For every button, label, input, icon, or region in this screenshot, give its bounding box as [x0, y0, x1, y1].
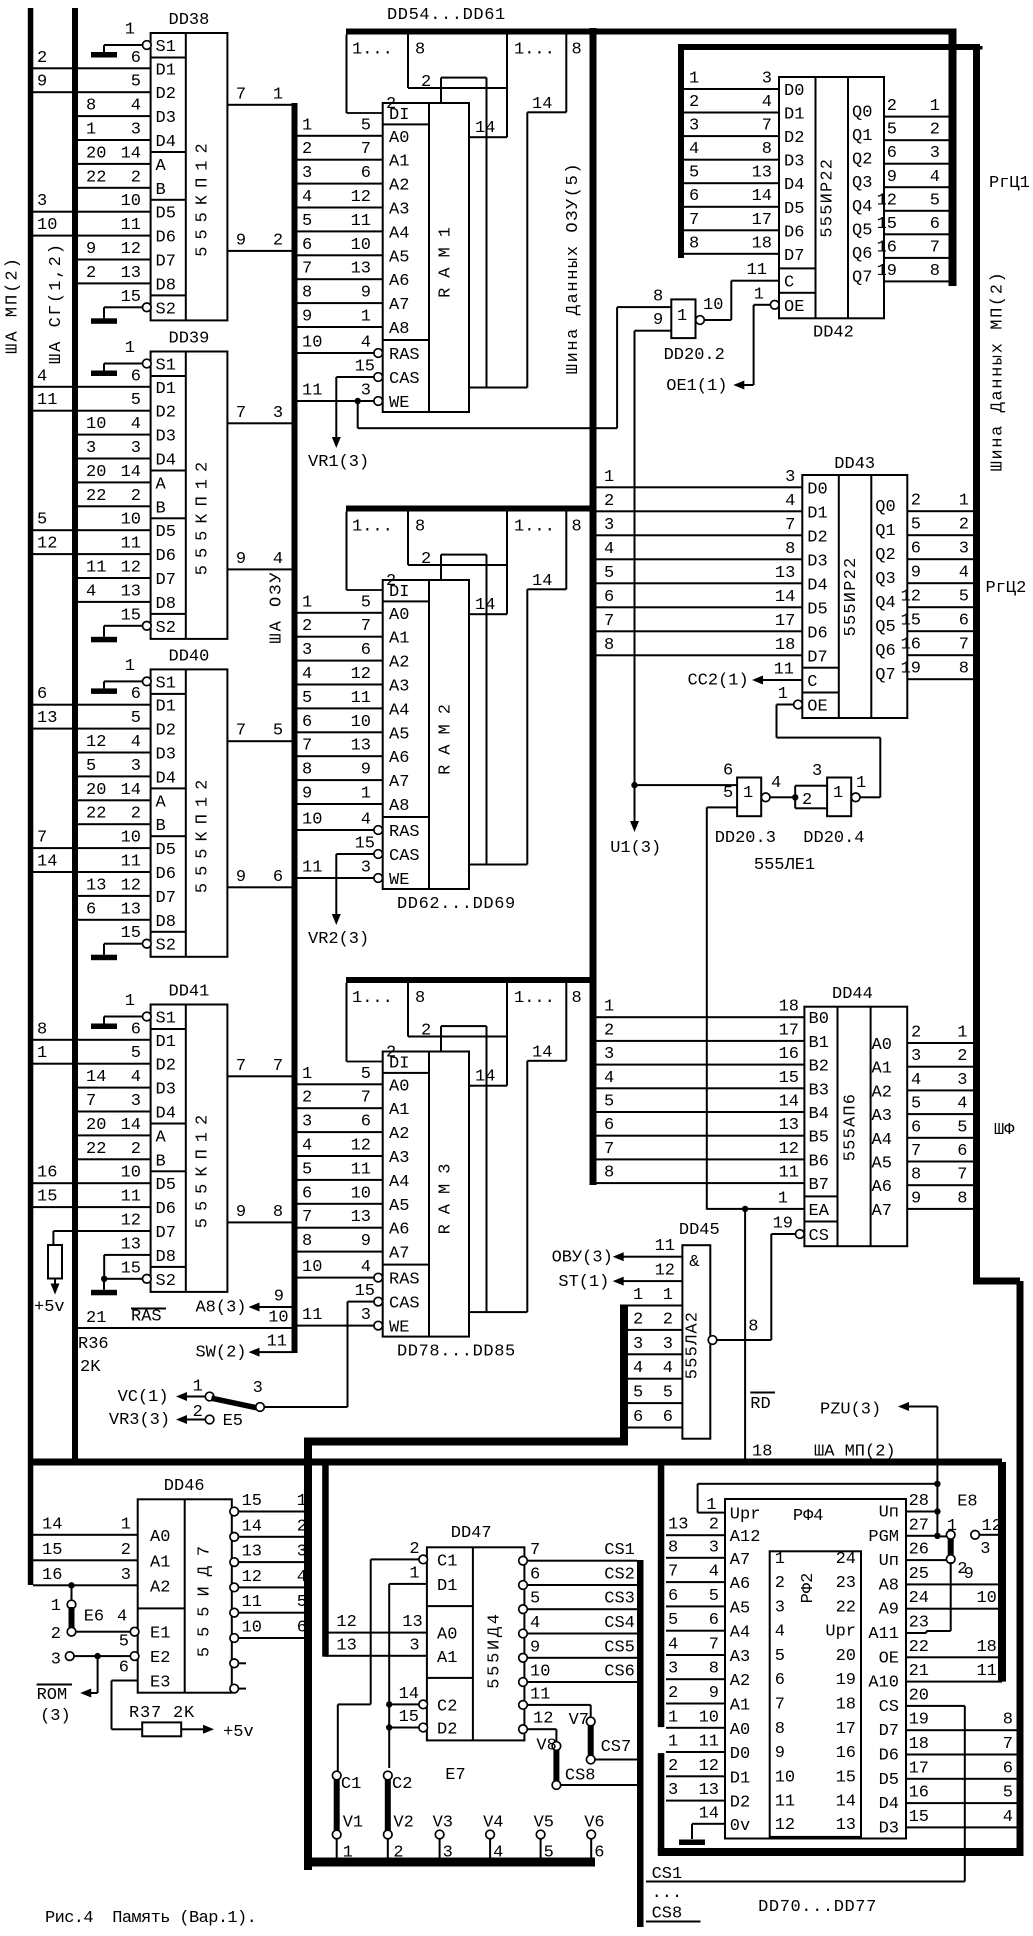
svg-text:A: A — [156, 1128, 167, 1147]
svg-text:6: 6 — [709, 1611, 719, 1630]
РФ4 pin24 wire — [906, 1608, 1002, 1610]
svg-text:2: 2 — [930, 121, 940, 140]
svg-text:20: 20 — [909, 1686, 929, 1705]
svg-text:1: 1 — [361, 308, 371, 327]
svg-text:8: 8 — [785, 540, 795, 559]
svg-text:RAM1: RAM1 — [437, 217, 456, 298]
svg-text:3: 3 — [361, 1306, 371, 1325]
svg-text:4: 4 — [131, 733, 141, 752]
svg-text:A: A — [156, 475, 167, 494]
svg-text:V6: V6 — [584, 1814, 604, 1833]
DD41 D8 to S2 ground wire — [104, 1254, 150, 1256]
svg-text:A12: A12 — [730, 1528, 761, 1547]
svg-text:A: A — [156, 157, 167, 176]
output wire 7/7 — [227, 1075, 291, 1077]
svg-text:3: 3 — [689, 117, 699, 136]
svg-text:12: 12 — [775, 1816, 795, 1835]
svg-text:3: 3 — [409, 1636, 419, 1655]
svg-text:2: 2 — [887, 97, 897, 116]
svg-text:2: 2 — [131, 1140, 141, 1159]
RAM3 RAS wire — [298, 1277, 379, 1279]
svg-text:D5: D5 — [156, 205, 176, 224]
output wire 9/4 — [227, 568, 291, 570]
svg-text:5: 5 — [302, 1160, 312, 1179]
DD40 S1 ground — [143, 677, 152, 686]
svg-text:6: 6 — [723, 762, 733, 781]
svg-text:17: 17 — [779, 1021, 799, 1040]
bus Шина Данных МП(2) lower vertical — [1017, 1281, 1024, 1852]
ROM section inner right bar — [998, 1462, 1006, 1682]
РФ4 pin26 wire — [906, 1559, 946, 1561]
svg-text:3: 3 — [443, 1844, 453, 1863]
svg-text:6: 6 — [297, 1619, 307, 1638]
resistor R36 2K wire from DD41 D7 — [53, 1230, 150, 1232]
svg-text:A0: A0 — [437, 1626, 457, 1645]
svg-text:5: 5 — [911, 1095, 921, 1114]
svg-text:7: 7 — [689, 211, 699, 230]
svg-text:1: 1 — [633, 1286, 643, 1305]
svg-text:18: 18 — [779, 998, 799, 1017]
svg-text:OE: OE — [879, 1649, 899, 1668]
output wire 9/8 — [227, 1221, 291, 1223]
svg-text:D4: D4 — [156, 769, 176, 788]
svg-text:CS5: CS5 — [604, 1638, 635, 1657]
svg-text:5: 5 — [131, 73, 141, 92]
svg-text:8: 8 — [273, 1203, 283, 1222]
svg-text:8: 8 — [930, 262, 940, 281]
svg-text:5: 5 — [887, 121, 897, 140]
svg-text:CS: CS — [809, 1227, 829, 1246]
DD40 S2 ground — [143, 939, 152, 948]
svg-text:1: 1 — [689, 70, 699, 89]
svg-text:D2: D2 — [784, 129, 804, 148]
svg-text:4: 4 — [709, 1563, 719, 1582]
output wire 7/1 — [227, 104, 291, 106]
svg-text:21: 21 — [86, 1309, 106, 1328]
svg-text:3: 3 — [37, 192, 47, 211]
svg-text:2: 2 — [633, 1310, 643, 1329]
svg-text:0v: 0v — [730, 1817, 750, 1836]
RAM3 address ladder wires — [298, 1083, 383, 1085]
svg-text:2: 2 — [121, 1541, 131, 1560]
svg-text:9: 9 — [274, 1288, 284, 1307]
svg-text:1: 1 — [604, 998, 614, 1017]
DD41 S2 ground — [143, 1275, 152, 1284]
svg-text:5: 5 — [302, 212, 312, 231]
svg-text:DD42: DD42 — [813, 323, 854, 342]
svg-text:3: 3 — [51, 1651, 61, 1670]
svg-text:4: 4 — [771, 774, 781, 793]
svg-text:A6: A6 — [389, 1221, 409, 1240]
svg-text:18: 18 — [909, 1735, 929, 1754]
svg-text:16: 16 — [779, 1045, 799, 1064]
svg-text:D0: D0 — [807, 480, 827, 499]
svg-text:7: 7 — [604, 612, 614, 631]
svg-text:14: 14 — [86, 1068, 106, 1087]
svg-text:5: 5 — [604, 564, 614, 583]
ROM section box left bar upper — [658, 1462, 665, 1727]
svg-text:12: 12 — [533, 1710, 553, 1729]
svg-text:Q0: Q0 — [852, 104, 872, 123]
svg-text:1: 1 — [125, 21, 135, 40]
svg-text:10: 10 — [775, 1768, 795, 1787]
svg-text:11: 11 — [37, 391, 57, 410]
svg-text:A9: A9 — [879, 1601, 899, 1620]
svg-text:2: 2 — [709, 1516, 719, 1535]
svg-text:A8(3): A8(3) — [195, 1299, 246, 1318]
svg-text:11: 11 — [655, 1237, 675, 1256]
svg-text:12: 12 — [86, 733, 106, 752]
svg-text:555ЛА2: 555ЛА2 — [683, 1311, 702, 1379]
svg-text:D5: D5 — [156, 1176, 176, 1195]
svg-text:8: 8 — [911, 1166, 921, 1185]
svg-text:4: 4 — [131, 1068, 141, 1087]
svg-text:12: 12 — [121, 240, 141, 259]
register DD43 555ИР22 box — [802, 475, 907, 718]
svg-text:DD46: DD46 — [164, 1477, 205, 1496]
svg-text:DD44: DD44 — [832, 985, 873, 1004]
svg-text:D5: D5 — [156, 841, 176, 860]
bus DD42 register bar — [949, 29, 957, 287]
DD43 OE net to DD20.4 — [776, 705, 778, 738]
DD47 output 11 to V7 — [519, 1701, 528, 1710]
svg-text:A4: A4 — [389, 1173, 409, 1192]
svg-text:11: 11 — [699, 1733, 719, 1752]
svg-text:12: 12 — [37, 535, 57, 554]
svg-text:3: 3 — [302, 164, 312, 183]
svg-text:A4: A4 — [389, 224, 409, 243]
svg-text:OE: OE — [784, 298, 804, 317]
svg-text:A6: A6 — [389, 749, 409, 768]
svg-text:3: 3 — [131, 121, 141, 140]
svg-text:CS1: CS1 — [604, 1541, 635, 1560]
DD20.4 output pin1 — [851, 793, 860, 802]
bus Шина Данных МП(2) vertical — [973, 44, 980, 1281]
svg-text:OE1(1): OE1(1) — [666, 377, 727, 396]
svg-text:6: 6 — [604, 588, 614, 607]
net A8(3) wire — [257, 1306, 292, 1308]
svg-text:A7: A7 — [389, 773, 409, 792]
svg-text:11: 11 — [302, 382, 322, 401]
svg-text:ША МП(2): ША МП(2) — [814, 1443, 896, 1462]
svg-text:РФ2: РФ2 — [799, 1573, 818, 1604]
svg-text:15: 15 — [355, 1282, 375, 1301]
svg-text:13: 13 — [37, 709, 57, 728]
svg-text:15: 15 — [877, 215, 897, 234]
svg-text:D2: D2 — [807, 528, 827, 547]
svg-text:1: 1 — [273, 85, 283, 104]
E8 pin12 wire — [971, 1531, 980, 1540]
svg-text:10: 10 — [242, 1619, 262, 1638]
svg-text:14: 14 — [37, 853, 57, 872]
svg-text:PGM: PGM — [868, 1528, 899, 1547]
svg-text:13: 13 — [668, 1516, 688, 1535]
svg-text:Q5: Q5 — [852, 221, 872, 240]
svg-text:D3: D3 — [156, 109, 176, 128]
svg-text:9: 9 — [361, 284, 371, 303]
svg-text:5: 5 — [361, 1065, 371, 1084]
svg-text:8: 8 — [1003, 1711, 1013, 1730]
svg-text:Q1: Q1 — [875, 522, 895, 541]
svg-text:2: 2 — [775, 1574, 785, 1593]
РФ4 pin21 A10 wire — [906, 1681, 1002, 1683]
svg-text:6: 6 — [911, 1118, 921, 1137]
svg-text:U1(3): U1(3) — [610, 839, 661, 858]
RAM2 address ladder wires — [298, 612, 383, 614]
svg-text:8: 8 — [415, 989, 425, 1008]
svg-text:Рис.4 Память (Вар.1).: Рис.4 Память (Вар.1). — [45, 1909, 256, 1928]
svg-text:D0: D0 — [784, 82, 804, 101]
svg-text:3: 3 — [604, 1045, 614, 1064]
svg-text:15: 15 — [901, 612, 921, 631]
svg-text:Q7: Q7 — [875, 666, 895, 685]
svg-text:15: 15 — [399, 1708, 419, 1727]
svg-text:24: 24 — [836, 1550, 856, 1569]
svg-text:18: 18 — [752, 234, 772, 253]
svg-text:2: 2 — [421, 73, 431, 92]
svg-text:16: 16 — [836, 1744, 856, 1763]
svg-text:A2: A2 — [389, 177, 409, 196]
DD41 input wires and pin numbers — [33, 1039, 151, 1041]
svg-text:17: 17 — [836, 1720, 856, 1739]
svg-text:15: 15 — [909, 1808, 929, 1827]
svg-text:1...: 1... — [352, 989, 393, 1008]
svg-text:A2: A2 — [389, 654, 409, 673]
svg-text:DD45: DD45 — [679, 1221, 720, 1240]
svg-text:A10: A10 — [868, 1674, 899, 1693]
svg-text:5: 5 — [361, 593, 371, 612]
svg-text:555КП12: 555КП12 — [194, 136, 213, 256]
mux DD40 555КП12 box — [151, 669, 228, 956]
svg-text:12: 12 — [351, 665, 371, 684]
svg-text:9: 9 — [361, 1232, 371, 1251]
svg-text:DD54...DD61: DD54...DD61 — [387, 6, 506, 25]
svg-text:CS2: CS2 — [604, 1566, 635, 1585]
svg-text:8: 8 — [668, 1538, 678, 1557]
svg-text:2: 2 — [689, 93, 699, 112]
svg-text:D4: D4 — [807, 576, 827, 595]
svg-text:6: 6 — [361, 1113, 371, 1132]
svg-text:5: 5 — [709, 1587, 719, 1606]
svg-text:1: 1 — [957, 1024, 967, 1043]
svg-text:11: 11 — [775, 1793, 795, 1812]
svg-text:14: 14 — [121, 781, 141, 800]
svg-text:4: 4 — [361, 334, 371, 353]
svg-text:8: 8 — [762, 140, 772, 159]
svg-text:CS3: CS3 — [604, 1590, 635, 1609]
svg-text:DD39: DD39 — [169, 330, 210, 349]
jumper E5 — [205, 1392, 214, 1401]
svg-text:7: 7 — [236, 404, 246, 423]
svg-text:14: 14 — [532, 572, 552, 591]
svg-text:11: 11 — [242, 1593, 262, 1612]
svg-text:B2: B2 — [809, 1058, 829, 1077]
jumpers V3 V4 V5 V6 — [435, 1830, 444, 1839]
nand DD45 555ЛА2 box — [682, 1245, 710, 1439]
svg-text:6: 6 — [668, 1587, 678, 1606]
svg-text:12: 12 — [336, 1613, 356, 1632]
svg-text:DD62...DD69: DD62...DD69 — [397, 895, 516, 914]
svg-text:4: 4 — [604, 540, 614, 559]
svg-text:D2: D2 — [156, 85, 176, 104]
DD46 E1 pin4 — [130, 1627, 139, 1636]
bus Шина Данных МП(2) jog right — [973, 1278, 1020, 1285]
svg-text:10: 10 — [302, 811, 322, 830]
svg-text:D4: D4 — [156, 133, 176, 152]
svg-text:D7: D7 — [156, 889, 176, 908]
svg-text:28: 28 — [909, 1492, 929, 1511]
svg-text:A3: A3 — [389, 1149, 409, 1168]
svg-text:8: 8 — [302, 761, 312, 780]
RAM1 header 14 step left — [469, 136, 507, 138]
svg-text:19: 19 — [773, 1215, 793, 1234]
svg-text:27: 27 — [909, 1516, 929, 1535]
RAM2 RAS wire — [298, 829, 379, 831]
svg-text:VC(1): VC(1) — [118, 1388, 169, 1407]
arrow +5v R36 — [54, 1279, 56, 1284]
svg-text:12: 12 — [901, 588, 921, 607]
DD42 Q output wires — [884, 116, 949, 118]
svg-text:14: 14 — [242, 1517, 262, 1536]
DD38 S1 ground — [143, 41, 152, 50]
svg-text:12: 12 — [242, 1568, 262, 1587]
svg-text:11: 11 — [121, 535, 141, 554]
RAM3 CAS wire — [348, 1301, 379, 1303]
svg-text:4: 4 — [273, 550, 283, 569]
svg-text:4: 4 — [911, 1071, 921, 1090]
svg-text:4: 4 — [302, 1137, 312, 1156]
svg-text:1: 1 — [37, 1044, 47, 1063]
svg-text:...: ... — [652, 1884, 683, 1903]
RAM1 address ladder wires — [298, 135, 383, 137]
svg-text:DD41: DD41 — [169, 983, 210, 1002]
DD38 input wires and pin numbers — [33, 67, 151, 69]
svg-text:5: 5 — [911, 516, 921, 535]
DD20.2 pin9 wire — [635, 330, 672, 332]
svg-text:9: 9 — [911, 564, 921, 583]
svg-text:3: 3 — [663, 1335, 673, 1354]
svg-text:РФ4: РФ4 — [793, 1507, 824, 1526]
svg-text:D7: D7 — [784, 247, 804, 266]
svg-text:3: 3 — [302, 641, 312, 660]
VR2(3) net from RAM2 CAS — [335, 854, 337, 914]
svg-text:3: 3 — [959, 540, 969, 559]
DD42 C wire pin11 — [731, 280, 779, 282]
svg-text:R37 2K: R37 2K — [129, 1704, 195, 1723]
svg-text:D6: D6 — [807, 624, 827, 643]
DD20.2 pin8 wire — [617, 306, 671, 308]
svg-text:RAM3: RAM3 — [437, 1154, 456, 1235]
svg-text:D3: D3 — [784, 153, 804, 172]
svg-text:D1: D1 — [156, 698, 176, 717]
svg-text:4: 4 — [493, 1844, 503, 1863]
svg-text:D8: D8 — [156, 276, 176, 295]
svg-text:10: 10 — [302, 334, 322, 353]
svg-text:A6: A6 — [872, 1178, 892, 1197]
svg-text:8: 8 — [689, 234, 699, 253]
svg-text:C1: C1 — [341, 1775, 361, 1794]
svg-text:12: 12 — [655, 1262, 675, 1281]
svg-text:A0: A0 — [389, 606, 409, 625]
svg-text:1...: 1... — [514, 518, 555, 537]
svg-text:D2: D2 — [437, 1721, 457, 1740]
svg-text:PZU(3): PZU(3) — [820, 1401, 881, 1420]
svg-text:8: 8 — [302, 1232, 312, 1251]
svg-text:&: & — [689, 1253, 699, 1272]
gate DD20.4 — [827, 778, 851, 817]
svg-text:20: 20 — [86, 1116, 106, 1135]
svg-text:8: 8 — [957, 1189, 967, 1208]
RAM1 header box 8 — [407, 35, 409, 89]
svg-text:A5: A5 — [389, 725, 409, 744]
svg-text:13: 13 — [779, 1116, 799, 1135]
svg-text:3: 3 — [980, 1540, 990, 1559]
svg-text:2: 2 — [273, 231, 283, 250]
svg-text:10: 10 — [699, 1708, 719, 1727]
svg-text:DD20.2: DD20.2 — [664, 346, 725, 365]
RAM2 behind chip outline — [441, 554, 487, 556]
svg-text:17: 17 — [775, 612, 795, 631]
svg-text:C2: C2 — [437, 1697, 457, 1716]
svg-text:7: 7 — [709, 1636, 719, 1655]
svg-text:5: 5 — [273, 722, 283, 741]
svg-text:A5: A5 — [389, 1197, 409, 1216]
DD44 EA wire — [707, 1208, 805, 1210]
mux DD38 555КП12 box — [151, 33, 228, 320]
svg-text:555КП12: 555КП12 — [194, 773, 213, 893]
svg-text:A8: A8 — [389, 320, 409, 339]
svg-text:15: 15 — [779, 1069, 799, 1088]
svg-text:A0: A0 — [389, 129, 409, 148]
svg-text:D3: D3 — [879, 1819, 899, 1838]
svg-text:+5v: +5v — [34, 1298, 65, 1317]
RAM chip RAM2 box — [383, 580, 469, 889]
svg-text:1: 1 — [302, 593, 312, 612]
jumper C1 — [332, 1771, 341, 1780]
svg-text:5: 5 — [663, 1384, 673, 1403]
svg-text:22: 22 — [86, 805, 106, 824]
svg-text:ОВУ(3): ОВУ(3) — [552, 1249, 613, 1268]
svg-text:20: 20 — [86, 463, 106, 482]
svg-text:19: 19 — [836, 1671, 856, 1690]
jumper V7 — [586, 1717, 595, 1726]
svg-text:DD43: DD43 — [834, 455, 875, 474]
svg-text:2: 2 — [957, 1047, 967, 1066]
svg-text:6: 6 — [361, 641, 371, 660]
svg-text:8: 8 — [775, 1720, 785, 1739]
svg-text:11: 11 — [976, 1662, 996, 1681]
svg-text:2: 2 — [668, 1684, 678, 1703]
svg-text:555ИР22: 555ИР22 — [842, 557, 861, 637]
svg-text:CAS: CAS — [389, 847, 420, 866]
svg-text:2: 2 — [37, 49, 47, 68]
svg-text:A3: A3 — [389, 678, 409, 697]
svg-text:6: 6 — [911, 540, 921, 559]
svg-text:Q6: Q6 — [875, 642, 895, 661]
svg-text:D5: D5 — [879, 1771, 899, 1790]
svg-text:3: 3 — [633, 1335, 643, 1354]
svg-text:9: 9 — [964, 1565, 974, 1584]
RAM3 WE wire — [298, 1325, 379, 1327]
svg-text:10: 10 — [976, 1589, 996, 1608]
RAM1 WE wire — [298, 400, 379, 402]
РФ4 left input wires — [666, 1534, 725, 1536]
svg-text:7: 7 — [236, 722, 246, 741]
svg-text:9: 9 — [911, 1189, 921, 1208]
RAM3 header box 8 — [407, 983, 409, 1037]
net U1(3) junction and arrow — [631, 782, 637, 788]
svg-text:14: 14 — [779, 1093, 799, 1112]
